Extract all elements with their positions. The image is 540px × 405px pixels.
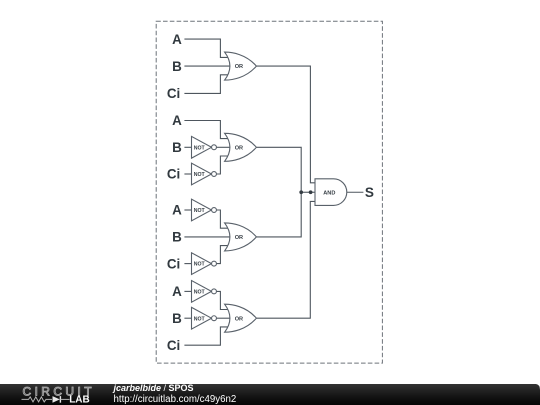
svg-text:NOT: NOT (194, 145, 206, 151)
wire B2 to NOT-B2 (184, 146, 191, 148)
wire B4 to NOT-B4 (184, 317, 191, 319)
wire A2 to OR2 input (184, 121, 229, 139)
svg-text:A: A (172, 32, 182, 47)
not-gate NOT-Ci2 (192, 163, 217, 185)
svg-text:A: A (172, 113, 182, 128)
not-gate NOT-B4 (192, 307, 217, 329)
wire A3 to NOT-A3 (184, 209, 191, 211)
wire AND output to S (347, 191, 364, 193)
svg-text:NOT: NOT (194, 290, 206, 296)
wire OR4 output to AND bottom input (256, 201, 316, 318)
wire OR2 output to OR3 output bus (256, 147, 301, 237)
svg-text:LAB: LAB (69, 395, 90, 405)
wire NOT-Ci3 out to OR3 input (216, 246, 229, 264)
svg-text:NOT: NOT (194, 172, 206, 178)
svg-text:B: B (172, 230, 182, 245)
wire NOT-B2 out to OR2 input (216, 146, 230, 148)
svg-text:NOT: NOT (194, 316, 206, 322)
not-gate NOT-A3 (192, 199, 217, 221)
logo diode (53, 396, 60, 403)
or-gate OR3 (225, 223, 257, 251)
wire NOT-A3 out to OR3 input (216, 210, 229, 228)
wire Ci1 to OR1 input (184, 75, 229, 94)
svg-text:Ci: Ci (167, 86, 180, 101)
wire B3 to OR3 input (184, 236, 230, 238)
svg-text:OR: OR (235, 235, 243, 241)
wire A4 to NOT-A4 (184, 290, 191, 292)
wire Ci4 to OR4 input (184, 327, 229, 345)
not-gate NOT-Ci3 (192, 253, 217, 275)
wire A1 to OR1 input (184, 39, 229, 57)
junction dot right (309, 190, 313, 194)
schematic dashed border (156, 21, 382, 363)
svg-text:S: S (365, 185, 374, 200)
svg-text:A: A (172, 284, 182, 299)
svg-text:NOT: NOT (194, 208, 206, 214)
wire NOT-B4 out to OR4 input (216, 317, 230, 319)
or-gate OR1 (225, 52, 257, 80)
or-gate OR2 (225, 133, 257, 161)
wire B1 to OR1 input (184, 65, 230, 67)
wire OR1 output to AND top input (256, 66, 316, 183)
svg-text:http://circuitlab.com/c49y6n2: http://circuitlab.com/c49y6n2 (114, 394, 237, 405)
and-gate U-AND (315, 179, 347, 206)
svg-text:B: B (172, 140, 182, 155)
logo wire with resistor (22, 397, 53, 402)
wire NOT-A4 out to OR4 input (216, 291, 229, 309)
wire node to AND middle input (301, 191, 316, 193)
svg-text:OR: OR (235, 316, 243, 322)
wire Ci2 to NOT-Ci2 (184, 173, 191, 175)
svg-text:B: B (172, 311, 182, 326)
or-gate OR4 (225, 304, 257, 332)
junction dot left (299, 190, 303, 194)
svg-text:OR: OR (235, 64, 243, 70)
svg-text:OR: OR (235, 145, 243, 151)
svg-text:AND: AND (323, 190, 335, 196)
not-gate NOT-A4 (192, 281, 217, 303)
footer bar (0, 384, 540, 405)
svg-text:A: A (172, 203, 182, 218)
svg-text:Ci: Ci (167, 167, 180, 182)
wire Ci3 to NOT-Ci3 (184, 263, 191, 265)
svg-text:Ci: Ci (167, 256, 180, 271)
svg-text:NOT: NOT (194, 262, 206, 268)
svg-text:Ci: Ci (167, 338, 180, 353)
svg-text:B: B (172, 59, 182, 74)
wire NOT-Ci2 out to OR2 input (216, 156, 229, 174)
svg-text:jcarbelbide / SPOS: jcarbelbide / SPOS (113, 383, 194, 393)
not-gate NOT-B2 (192, 136, 217, 158)
